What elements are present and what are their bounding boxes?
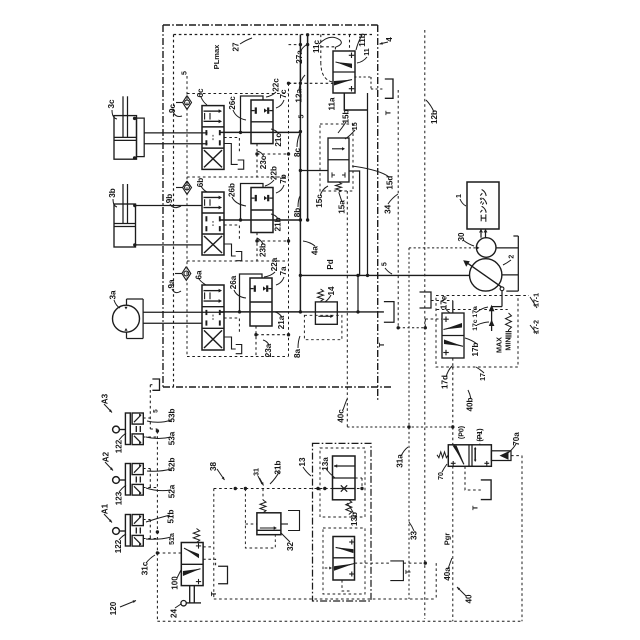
svg-text:100: 100 (171, 576, 180, 590)
svg-text:(P1): (P1) (477, 428, 484, 441)
svg-text:T: T (471, 505, 480, 510)
svg-text:12a: 12a (295, 89, 304, 103)
svg-text:1: 1 (456, 194, 463, 198)
svg-text:17d: 17d (441, 375, 450, 389)
svg-text:4a: 4a (311, 246, 320, 256)
svg-text:21a: 21a (277, 315, 286, 329)
svg-text:5: 5 (382, 262, 389, 266)
svg-text:15b: 15b (342, 109, 351, 123)
svg-text:7a: 7a (279, 266, 288, 276)
svg-text:70a: 70a (512, 432, 521, 446)
svg-text:17c 17a: 17c 17a (472, 306, 479, 331)
svg-text:5: 5 (299, 114, 306, 118)
svg-text:53a: 53a (168, 431, 177, 445)
svg-text:5: 5 (182, 71, 189, 75)
svg-text:8c: 8c (293, 148, 302, 158)
svg-text:エンジン: エンジン (479, 189, 489, 223)
svg-text:31b: 31b (274, 460, 283, 474)
svg-text:12b: 12b (430, 110, 439, 124)
svg-text:30: 30 (457, 232, 466, 242)
svg-text:15d: 15d (385, 176, 394, 190)
svg-text:21c: 21c (274, 133, 283, 147)
svg-text:23b: 23b (259, 243, 268, 257)
svg-text:70: 70 (438, 472, 445, 480)
svg-text:51b: 51b (167, 509, 176, 523)
svg-text:7c: 7c (279, 89, 288, 99)
svg-text:32: 32 (286, 542, 295, 552)
svg-text:11: 11 (364, 48, 371, 56)
svg-text:4: 4 (385, 37, 394, 42)
svg-text:14: 14 (327, 286, 336, 296)
svg-text:120: 120 (109, 601, 118, 615)
svg-text:T: T (384, 110, 393, 115)
svg-text:23a: 23a (264, 343, 273, 357)
svg-text:MIN: MIN (504, 337, 513, 350)
svg-text:122: 122 (114, 539, 123, 553)
svg-text:6c: 6c (196, 88, 205, 98)
svg-text:6a: 6a (195, 270, 204, 280)
svg-text:31a: 31a (396, 454, 405, 468)
svg-text:26c: 26c (228, 96, 237, 110)
svg-text:23c: 23c (259, 155, 268, 169)
svg-text:31c: 31c (141, 561, 150, 575)
svg-text:Pd: Pd (326, 259, 335, 269)
svg-text:5: 5 (153, 409, 160, 413)
svg-text:A3: A3 (101, 393, 110, 404)
svg-text:27: 27 (232, 42, 241, 52)
svg-text:52a: 52a (168, 484, 177, 498)
svg-text:38: 38 (209, 462, 218, 472)
svg-text:31: 31 (254, 468, 261, 476)
svg-text:21b: 21b (274, 217, 283, 231)
svg-text:40a: 40a (443, 567, 452, 581)
svg-text:13a: 13a (321, 457, 330, 471)
svg-text:3c: 3c (107, 99, 116, 109)
svg-text:A1: A1 (101, 503, 110, 514)
svg-text:40b: 40b (466, 397, 475, 411)
svg-text:3b: 3b (108, 188, 117, 198)
svg-text:11a: 11a (328, 97, 337, 111)
svg-text:8b: 8b (293, 208, 302, 218)
svg-text:MAX: MAX (495, 337, 504, 353)
svg-text:A2: A2 (102, 451, 111, 462)
svg-text:40c: 40c (337, 409, 346, 423)
svg-text:T: T (406, 569, 413, 574)
svg-text:Pgr: Pgr (443, 533, 452, 546)
svg-text:2: 2 (508, 255, 515, 259)
svg-text:3a: 3a (109, 290, 118, 300)
svg-text:123: 123 (115, 491, 124, 505)
svg-text:17e: 17e (440, 295, 449, 309)
svg-text:7b: 7b (279, 174, 288, 184)
svg-text:9b: 9b (165, 194, 174, 204)
svg-text:T: T (377, 342, 386, 347)
svg-text:6b: 6b (196, 178, 205, 188)
svg-text:8a: 8a (293, 349, 302, 359)
svg-text:17b: 17b (471, 342, 480, 356)
svg-text:17-2: 17-2 (534, 320, 541, 334)
svg-text:26a: 26a (229, 275, 238, 289)
svg-text:9a: 9a (167, 279, 176, 289)
svg-text:PLmax: PLmax (212, 44, 221, 69)
svg-text:15: 15 (352, 122, 359, 130)
svg-text:22b: 22b (270, 166, 279, 180)
svg-text:13: 13 (298, 457, 307, 467)
svg-text:24: 24 (170, 609, 179, 619)
svg-text:11c: 11c (312, 39, 321, 53)
svg-text:27a: 27a (295, 50, 304, 64)
svg-text:22a: 22a (270, 257, 279, 271)
svg-text:34: 34 (384, 204, 393, 214)
svg-text:17: 17 (480, 373, 487, 381)
svg-text:122: 122 (115, 439, 124, 453)
svg-text:(P0): (P0) (459, 426, 466, 439)
svg-text:9c: 9c (168, 104, 177, 114)
svg-text:26b: 26b (227, 183, 236, 197)
svg-text:33: 33 (410, 531, 419, 541)
svg-text:13b: 13b (350, 512, 359, 526)
svg-text:51a: 51a (169, 533, 176, 545)
